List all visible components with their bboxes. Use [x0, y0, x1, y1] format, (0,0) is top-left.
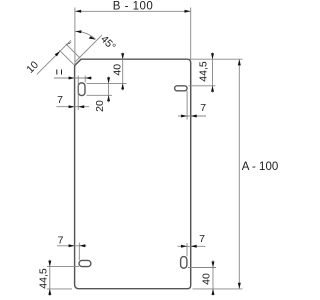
- dimension 20 top-left: [87, 77, 113, 112]
- svg-text:40: 40: [201, 273, 213, 285]
- dimension 7 bottom-left: [57, 235, 87, 261]
- dimension B-100: [75, 1, 191, 65]
- svg-text:B - 100: B - 100: [113, 1, 154, 13]
- dimension 7 top-right: [178, 91, 206, 120]
- slot bottom-left: [79, 260, 91, 266]
- dimension 44,5 bottom-left: [37, 260, 79, 297]
- dimension 45 degree chamfer angle: [75, 30, 118, 61]
- svg-text:A - 100: A - 100: [242, 161, 278, 173]
- svg-text:7: 7: [200, 102, 206, 114]
- svg-text:7: 7: [58, 235, 64, 247]
- dimension 40 top: [87, 53, 127, 91]
- svg-text:40: 40: [112, 64, 124, 76]
- slot bottom-right: [181, 257, 187, 269]
- dimension A-100: [190, 59, 279, 289]
- dimension 11 slot width top-left: [54, 70, 92, 83]
- svg-text:7: 7: [57, 94, 63, 106]
- dimension 40 bottom-right: [188, 260, 216, 296]
- dimension 7 bottom-right: [178, 233, 206, 256]
- dimension 10 chamfer length: [24, 40, 80, 75]
- slot top-right: [175, 86, 188, 91]
- dimension 7 top-left: [57, 76, 90, 111]
- svg-text:44,5: 44,5: [37, 268, 49, 289]
- dimension 44,5 top-right: [189, 53, 216, 93]
- svg-text:20: 20: [94, 100, 106, 112]
- svg-text:7: 7: [199, 233, 205, 245]
- slot top-left: [78, 83, 85, 96]
- plate outline: [75, 59, 191, 289]
- svg-text:44,5: 44,5: [198, 61, 210, 82]
